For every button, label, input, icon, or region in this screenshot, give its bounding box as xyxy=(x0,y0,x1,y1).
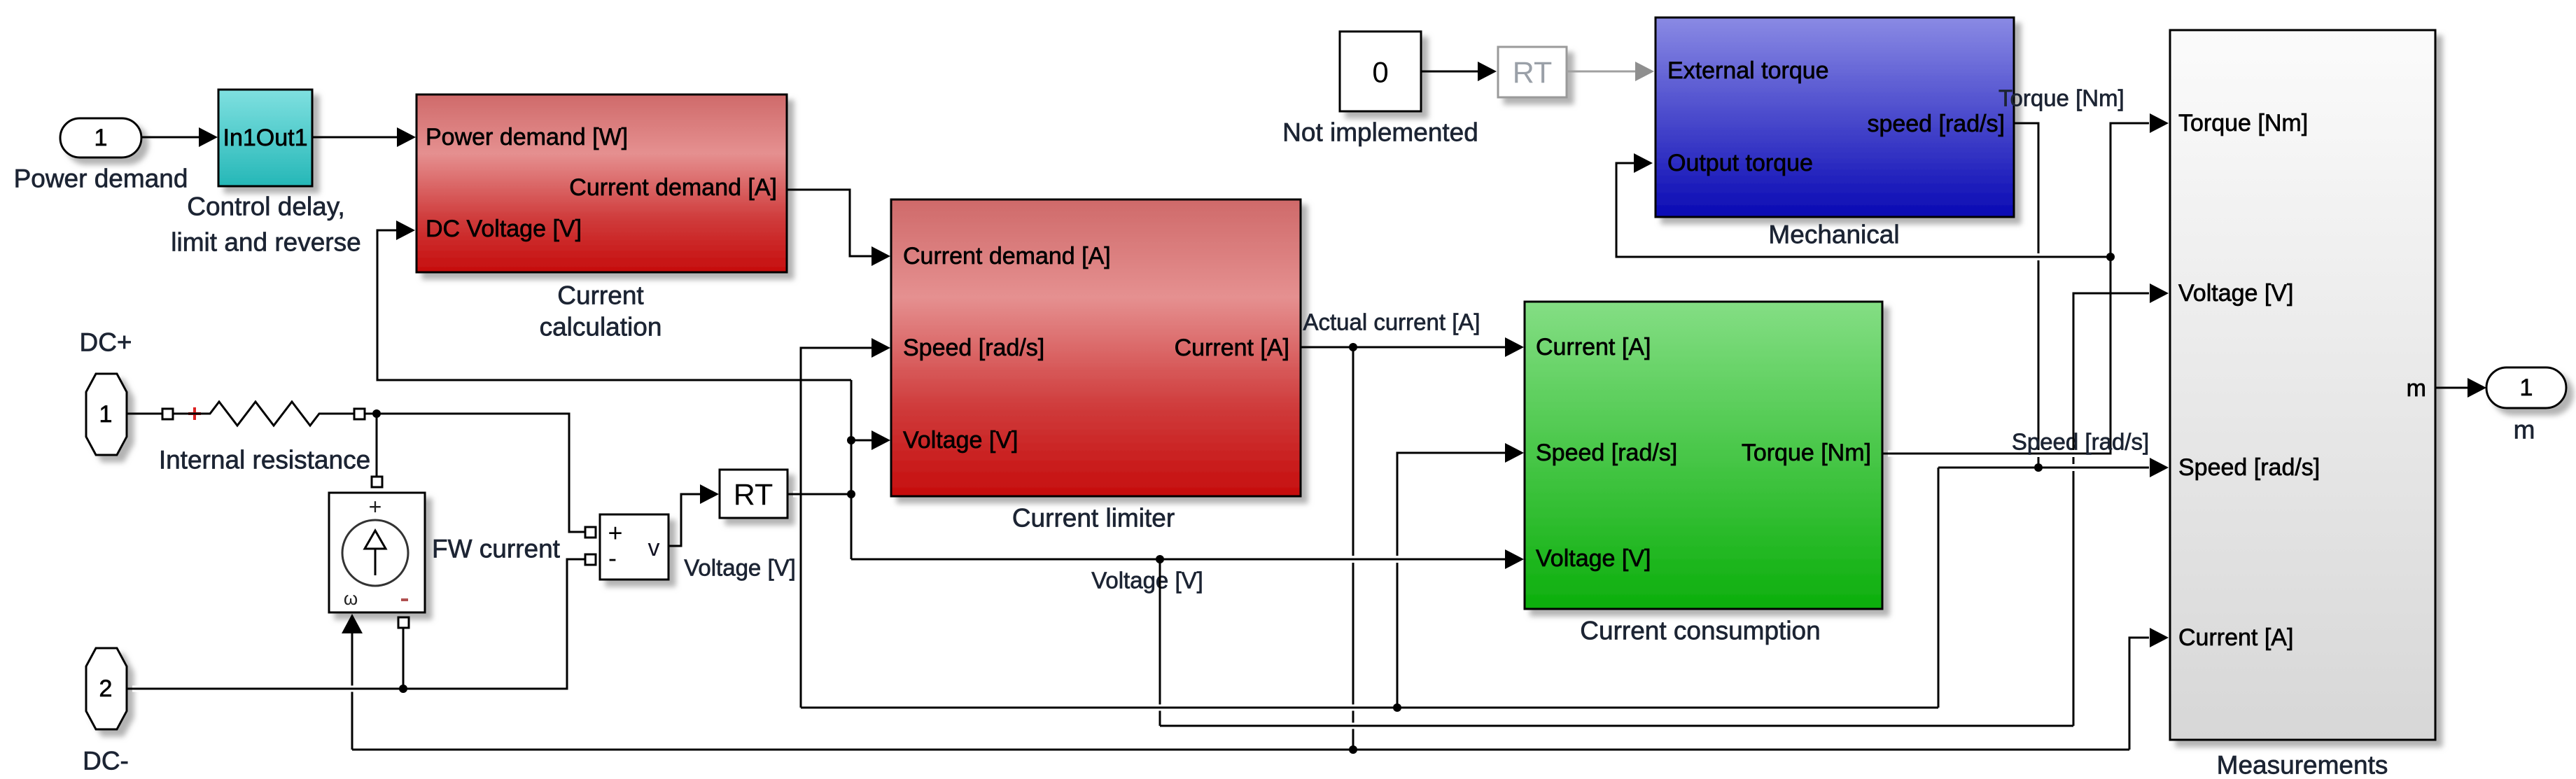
wire voltage down to bus xyxy=(1159,559,1161,726)
svg-text:calculation: calculation xyxy=(540,313,662,342)
wire actual current down to bus xyxy=(1352,347,1354,556)
svg-text:DC-: DC- xyxy=(83,747,129,776)
junction node DC- FW minus xyxy=(399,685,407,693)
junction node actual current xyxy=(1349,343,1357,351)
svg-text:1: 1 xyxy=(2520,374,2533,401)
wire torque feedback to Mechanical xyxy=(1616,153,2110,257)
speed feedback vertical to limiter xyxy=(801,338,890,708)
svg-text:Torque [Nm]: Torque [Nm] xyxy=(1742,440,1871,466)
junction node voltage at RT out xyxy=(847,490,855,498)
svg-text:0: 0 xyxy=(1372,56,1388,89)
subsystem Measurements xyxy=(2170,30,2435,779)
svg-text:-: - xyxy=(608,544,617,573)
wire oval1 to Control delay xyxy=(141,127,218,147)
FW current signal input arrow xyxy=(342,614,363,633)
voltage feedback to Current calculation xyxy=(377,220,851,380)
svg-text:ω: ω xyxy=(344,588,358,609)
svg-text:Voltage [V]: Voltage [V] xyxy=(684,555,796,581)
subsystem Current consumption xyxy=(1525,302,1882,645)
svg-text:m: m xyxy=(2407,375,2426,402)
svg-text:Torque [Nm]: Torque [Nm] xyxy=(1998,85,2124,111)
wire voltage up to Measurements xyxy=(2073,283,2169,726)
voltage net vertical xyxy=(850,380,853,559)
svg-text:Speed [rad/s]: Speed [rad/s] xyxy=(1536,440,1677,466)
actual current bus horizontal xyxy=(352,747,2129,753)
gray wire RT2 to Mechanical xyxy=(1567,62,1654,81)
FW current bottom right port square xyxy=(398,617,409,628)
voltage sensor xyxy=(600,514,668,580)
subsystem Current calculation xyxy=(416,94,787,342)
svg-text:Voltage [V]: Voltage [V] xyxy=(2178,280,2293,307)
FW current top port square xyxy=(372,477,382,487)
wire current up to Measurements xyxy=(2129,628,2169,750)
svg-text:Mechanical: Mechanical xyxy=(1768,220,1899,249)
wire voltage to Current consumption xyxy=(851,549,1524,569)
speed bus horizontal xyxy=(801,705,1938,711)
svg-text:Power demand: Power demand xyxy=(14,164,188,193)
svg-text:Current demand [A]: Current demand [A] xyxy=(903,243,1111,269)
wire speed up to Current consumption speed port xyxy=(1397,443,1524,708)
transfer function RT xyxy=(684,470,796,581)
svg-text:Internal resistance: Internal resistance xyxy=(159,446,370,475)
wire FW signal input from actual current bus xyxy=(351,633,353,750)
voltage sensor plus port square xyxy=(585,527,596,538)
svg-text:FW current: FW current xyxy=(432,535,561,563)
wire speed to Measurements xyxy=(1938,458,2169,477)
wire DC+ to resistor xyxy=(127,413,162,415)
svg-text:1: 1 xyxy=(94,125,108,151)
svg-text:Actual current [A]: Actual current [A] xyxy=(1303,309,1480,335)
connection port hexagon DC- xyxy=(83,648,129,776)
svg-text:limit and reverse: limit and reverse xyxy=(171,228,360,257)
wire voltage to Current limiter Voltage port xyxy=(851,430,890,450)
svg-text:Output torque: Output torque xyxy=(1667,150,1813,176)
svg-text:Current consumption: Current consumption xyxy=(1580,617,1820,645)
svg-text:RT: RT xyxy=(1513,56,1553,90)
wire Current demand to Current limiter xyxy=(787,190,890,266)
svg-text:Current limiter: Current limiter xyxy=(1012,504,1175,533)
wire Control delay to Current calculation xyxy=(312,127,416,147)
red plus polarity mark xyxy=(188,407,201,420)
resistor port square right xyxy=(354,409,365,419)
svg-text:speed [rad/s]: speed [rad/s] xyxy=(1867,111,2005,137)
svg-text:Speed [rad/s]: Speed [rad/s] xyxy=(2012,429,2149,455)
constant 0 xyxy=(1282,31,1478,147)
svg-text:m: m xyxy=(2514,416,2535,444)
connection port hexagon DC+ xyxy=(79,328,132,456)
junction node speed to consumption xyxy=(1393,703,1401,712)
current source FW current xyxy=(329,493,561,612)
wire resistor to junction xyxy=(365,413,377,415)
svg-text:Speed [rad/s]: Speed [rad/s] xyxy=(2178,454,2320,481)
outport oval m xyxy=(2486,367,2566,444)
svg-text:1: 1 xyxy=(99,401,113,428)
svg-text:Current demand [A]: Current demand [A] xyxy=(569,174,777,201)
svg-text:+: + xyxy=(369,494,382,519)
wire 0 to RT2 xyxy=(1421,62,1497,81)
resistor Internal resistance zigzag xyxy=(159,402,370,475)
svg-text:External torque: External torque xyxy=(1667,57,1829,84)
wire sensor v to RT xyxy=(668,484,719,546)
svg-text:Speed [rad/s]: Speed [rad/s] xyxy=(903,335,1044,361)
wire junction to voltage sensor plus xyxy=(377,414,585,532)
svg-text:Voltage [V]: Voltage [V] xyxy=(1091,568,1203,594)
junction node speed xyxy=(2034,463,2043,472)
svg-text:DC+: DC+ xyxy=(79,328,132,357)
svg-text:2: 2 xyxy=(99,675,113,702)
svg-text:In1Out1: In1Out1 xyxy=(223,125,308,151)
voltage sensor minus port square xyxy=(585,554,596,565)
junction node current bus xyxy=(1349,745,1357,754)
subsystem Control delay, limit and reverse xyxy=(171,90,360,257)
resistor port square left xyxy=(162,409,173,419)
svg-text:Power demand [W]: Power demand [W] xyxy=(426,124,628,150)
junction node voltage drop xyxy=(1156,555,1164,563)
wire Current consumption torque output xyxy=(1882,113,2169,454)
wire Measurements m to outport xyxy=(2435,378,2486,398)
junction node voltage at limiter port xyxy=(847,436,855,444)
svg-text:Torque [Nm]: Torque [Nm] xyxy=(2178,110,2308,136)
svg-text:v: v xyxy=(648,535,660,561)
svg-text:Not implemented: Not implemented xyxy=(1282,118,1478,147)
svg-text:DC Voltage [V]: DC Voltage [V] xyxy=(426,216,582,242)
junction node resistor output xyxy=(372,409,381,418)
transfer function RT gray xyxy=(1498,47,1567,97)
wire junction down to FW current plus port xyxy=(376,414,378,478)
svg-text:Current [A]: Current [A] xyxy=(2178,624,2293,651)
svg-text:+: + xyxy=(608,519,622,547)
wire DC- to voltage sensor minus xyxy=(127,559,585,689)
svg-text:Voltage [V]: Voltage [V] xyxy=(1536,545,1651,572)
inport oval 1 Power demand xyxy=(14,118,188,193)
svg-text:RT: RT xyxy=(734,478,773,512)
svg-text:Current [A]: Current [A] xyxy=(1175,335,1289,361)
wire Current limiter output to Current consumption xyxy=(1301,309,1524,358)
wire FW minus to DC- line xyxy=(402,628,405,689)
wire speed down to bus xyxy=(1938,468,1940,708)
voltage bus horizontal xyxy=(1160,723,2073,729)
subsystem Current limiter xyxy=(891,199,1301,533)
svg-text:Current: Current xyxy=(557,281,644,310)
svg-text:Voltage [V]: Voltage [V] xyxy=(903,427,1018,454)
junction node torque xyxy=(2106,253,2115,261)
subsystem Mechanical xyxy=(1655,17,2014,249)
wire RT output to voltage node xyxy=(787,491,851,498)
svg-text:Current [A]: Current [A] xyxy=(1536,334,1651,360)
wire Mechanical speed output down xyxy=(2014,123,2038,253)
svg-text:Measurements: Measurements xyxy=(2217,751,2388,779)
svg-text:Control delay,: Control delay, xyxy=(187,192,345,221)
